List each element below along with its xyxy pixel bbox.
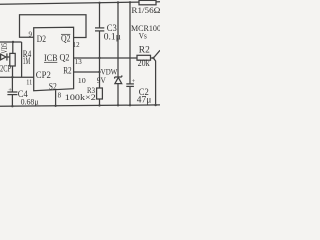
wire zener drop from rail [117, 3, 119, 78]
svg-text:8: 8 [58, 91, 62, 99]
wire SCR cathode to ground rail [153, 58, 155, 105]
node dot rail SCR [154, 104, 156, 106]
wire pin12 Q2bar feedback [20, 15, 87, 38]
wire pin11 CP2 input [0, 76, 34, 78]
capacitor C2 [126, 83, 134, 85]
zener diode VDW [115, 76, 122, 78]
wire bottom ground rail [0, 105, 160, 106]
diode VD5 [1, 54, 6, 60]
svg-text:R2: R2 [63, 66, 71, 76]
wire zener to ground rail [117, 84, 119, 106]
node dot pin13 net [98, 57, 100, 59]
wire R3 to ground rail [99, 99, 101, 105]
svg-text:Q2: Q2 [61, 34, 71, 44]
svg-text:D2: D2 [37, 34, 46, 44]
svg-text:10: 10 [78, 77, 87, 85]
wire input node [0, 41, 22, 43]
svg-text:9V: 9V [97, 75, 107, 85]
svg-text:R2: R2 [139, 44, 150, 54]
svg-text:2CP: 2CP [0, 63, 11, 73]
svg-text:S2: S2 [49, 81, 57, 91]
node dot rail C3 [98, 2, 100, 4]
wire R4 to pin11 wire [12, 66, 14, 77]
wire pin13 Q2 to R2 [74, 57, 137, 59]
underline ICB [44, 61, 57, 63]
wire C3 to R3 [99, 31, 101, 88]
node dot SCR gate [152, 57, 154, 59]
node dot rail R3 [98, 104, 100, 106]
wire node down to pin11 [21, 42, 23, 77]
capacitor C3 [95, 27, 104, 29]
svg-text:+: + [132, 78, 136, 85]
svg-text:Q2: Q2 [60, 53, 70, 63]
node dot rail pin8 [54, 105, 56, 107]
wire C4 drop [11, 77, 13, 92]
svg-text:12: 12 [73, 41, 81, 49]
IC op-amp U1 box [34, 27, 74, 90]
node dot input node [12, 41, 14, 43]
wire C3 drop from rail [99, 3, 101, 28]
wire C4 to ground rail [11, 95, 13, 107]
wire top supply rail [0, 2, 139, 4]
resistor R3 [97, 88, 103, 99]
svg-text:Vs: Vs [139, 30, 147, 40]
svg-text:CP2: CP2 [36, 70, 51, 80]
svg-text:1M: 1M [23, 56, 31, 66]
overbar Q2 [61, 33, 70, 35]
wire node to R4 [12, 42, 14, 53]
svg-text:R1/56Ω: R1/56Ω [131, 5, 160, 15]
svg-text:11: 11 [26, 78, 32, 86]
svg-text:100k×2: 100k×2 [65, 92, 96, 102]
svg-text:VD5: VD5 [0, 43, 9, 54]
svg-text:0.68μ: 0.68μ [21, 96, 39, 106]
svg-text:13: 13 [75, 58, 83, 66]
wire pin8 S2 to ground rail [55, 90, 57, 106]
svg-text:20k: 20k [138, 58, 150, 68]
node dot rail zener [117, 1, 119, 3]
wire pin10 R2 input [74, 71, 100, 73]
node dot rail C4 [11, 105, 13, 107]
resistor R2 [137, 55, 151, 60]
node dot rail C2 bottom [129, 104, 131, 106]
capacitor C4 [7, 91, 17, 93]
svg-text:0.1μ: 0.1μ [104, 32, 121, 42]
svg-text:47μ: 47μ [137, 94, 152, 104]
wire C2 to ground rail [129, 86, 131, 105]
thyristor MCR100 gate lead [153, 50, 160, 58]
svg-text:ICB: ICB [44, 53, 58, 63]
node dot C4 top [11, 76, 13, 78]
wire R2 to SCR gate [151, 57, 154, 59]
node dot rail zener bottom [117, 104, 119, 106]
resistor R1 [139, 0, 156, 4]
node dot rail C2 [129, 1, 131, 3]
svg-text:9: 9 [29, 30, 33, 38]
node dot pin10 net [98, 71, 100, 73]
resistor R4 [10, 53, 15, 66]
wire C2 drop from rail [129, 2, 131, 83]
svg-text:+: + [8, 87, 12, 94]
